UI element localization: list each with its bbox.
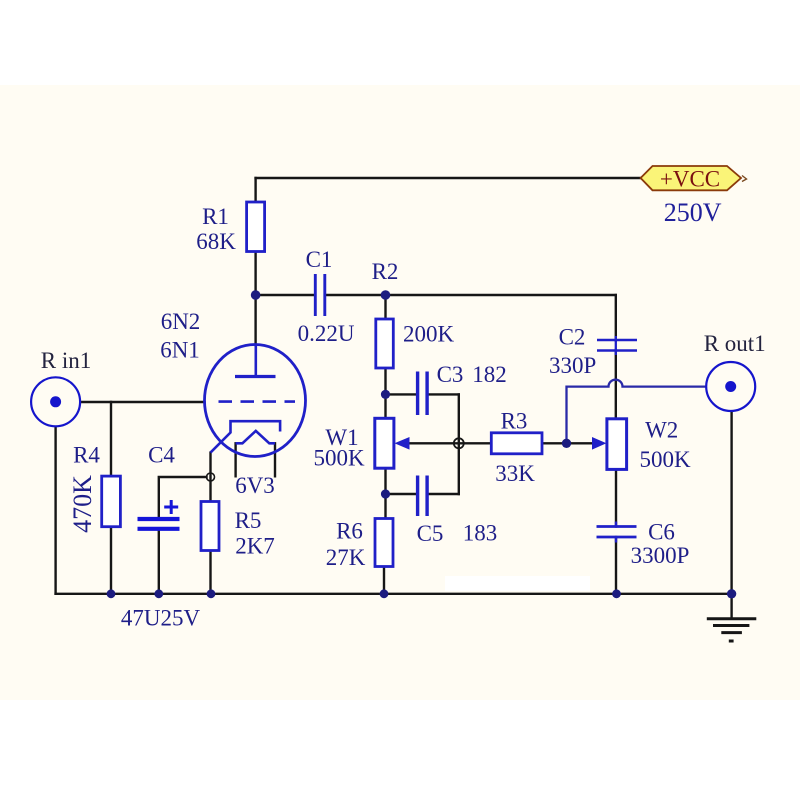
capacitor C6 <box>597 527 637 538</box>
svg-text:+VCC: +VCC <box>660 167 720 192</box>
wire R3 to junction E <box>542 442 594 444</box>
wire R2 bottom lead <box>384 368 386 394</box>
potentiometer W2 <box>607 419 627 470</box>
svg-text:183: 183 <box>463 521 498 546</box>
wire node C to C3 left plate <box>386 393 418 395</box>
resistor R4 <box>102 476 121 527</box>
wire C3 right plate to vertical <box>429 393 459 395</box>
bus dot R5 <box>207 589 216 598</box>
svg-text:C3: C3 <box>437 362 464 387</box>
wire W1 wiper to R3 with hop <box>409 442 491 444</box>
svg-text:W2: W2 <box>645 418 678 443</box>
resistor R2 <box>376 319 394 368</box>
svg-text:6V3: 6V3 <box>235 473 275 498</box>
wire R4 top lead <box>110 402 112 476</box>
svg-text:250V: 250V <box>664 198 722 227</box>
capacitor C5 <box>418 476 428 517</box>
crossover ring on wiper line <box>454 438 464 448</box>
svg-text:3300P: 3300P <box>631 543 690 568</box>
svg-text:47U25V: 47U25V <box>121 606 201 631</box>
node E dot <box>562 439 571 448</box>
svg-text:470K: 470K <box>68 475 97 533</box>
node D dot <box>381 489 390 498</box>
svg-text:330P: 330P <box>549 353 596 378</box>
junction hook at cathode/C4 node <box>207 473 215 481</box>
wire heater pin left <box>234 443 236 476</box>
wire node A down to tube plate <box>254 295 256 345</box>
tube V1 envelope <box>205 345 306 457</box>
bus dot R4 <box>107 589 116 598</box>
bus dot C4 <box>154 589 163 598</box>
bus dot C6 <box>612 589 621 598</box>
power flag pin tick <box>742 176 747 182</box>
wire cathode to R5 <box>209 453 211 502</box>
svg-text:R in1: R in1 <box>41 348 91 373</box>
wire ground stub <box>730 594 732 618</box>
wire W1 bottom lead <box>384 468 386 494</box>
svg-text:6N1: 6N1 <box>160 338 200 363</box>
wire W1 top lead <box>384 394 386 418</box>
wire C6 bottom lead <box>615 537 617 594</box>
resistor R6 <box>375 519 393 567</box>
wire ground bus <box>56 593 732 595</box>
bus dot R6 <box>380 589 389 598</box>
capacitor C1 <box>315 274 325 316</box>
wire R4 bottom lead <box>110 527 112 594</box>
svg-text:R5: R5 <box>235 508 262 533</box>
svg-text:C2: C2 <box>559 325 586 350</box>
capacitor C3 <box>418 372 428 416</box>
tube grid dashes <box>219 400 296 403</box>
connector R out1 <box>706 362 755 411</box>
tube filament <box>236 431 275 443</box>
wire C2 bottom to W2 top <box>615 350 617 419</box>
wire R6 bottom lead <box>383 567 385 594</box>
wire node A to C1 <box>256 294 315 296</box>
wire top power rail <box>256 177 641 179</box>
ground symbol <box>707 619 757 641</box>
connector R in1 <box>31 377 80 426</box>
svg-text:R6: R6 <box>336 519 363 544</box>
wire C1 to node B <box>326 294 386 296</box>
resistor R1 <box>247 202 265 252</box>
svg-text:68K: 68K <box>196 229 236 254</box>
svg-text:R1: R1 <box>202 204 229 229</box>
power flag +VCC hexagon <box>641 166 741 190</box>
potentiometer W1 wiper arrow <box>395 437 410 450</box>
capacitor C4 plus sign <box>164 500 178 514</box>
svg-text:200K: 200K <box>403 322 455 347</box>
svg-text:R3: R3 <box>501 409 528 434</box>
wire R in1 down to ground bus <box>54 426 56 594</box>
svg-text:R2: R2 <box>372 259 399 284</box>
svg-text:C4: C4 <box>148 443 175 468</box>
node B dot <box>381 290 391 300</box>
svg-text:2K7: 2K7 <box>235 534 275 559</box>
wire node B to right rail <box>386 294 616 296</box>
svg-text:500K: 500K <box>313 446 365 471</box>
wire output feed with hop (blue) <box>567 380 707 444</box>
wire C5 right plate to vertical <box>429 493 459 495</box>
wire node D to C5 left plate <box>386 493 418 495</box>
node A dot <box>251 290 261 300</box>
tube cathode <box>211 421 281 452</box>
tube plate lead <box>255 344 258 377</box>
resistor R5 <box>201 502 219 551</box>
svg-text:R4: R4 <box>73 443 100 468</box>
wire grid input from R in1 <box>80 401 205 403</box>
resistor R3 <box>491 433 542 454</box>
potentiometer W1 <box>375 418 394 468</box>
svg-text:C6: C6 <box>648 520 675 545</box>
svg-text:C5: C5 <box>417 521 444 546</box>
wire C4 bottom lead <box>158 531 160 594</box>
svg-text:27K: 27K <box>326 545 366 570</box>
wire R2 top lead <box>384 295 386 319</box>
potentiometer W2 wiper arrow <box>592 437 606 450</box>
tube plate bar <box>235 375 276 378</box>
wire R1 top lead <box>254 178 256 202</box>
bus dot ground <box>727 589 736 598</box>
svg-text:182: 182 <box>472 362 507 387</box>
svg-text:0.22U: 0.22U <box>298 321 355 346</box>
wire C3-C5 right vertical <box>458 394 460 494</box>
svg-text:C1: C1 <box>306 247 333 272</box>
svg-text:6N2: 6N2 <box>161 309 201 334</box>
wire R out1 down to ground bus <box>730 411 732 594</box>
wire R6 top lead <box>384 494 386 519</box>
svg-text:R out1: R out1 <box>704 331 766 356</box>
wire W2 bottom to C6 <box>615 469 617 526</box>
wire right rail down to C2 <box>615 295 617 341</box>
svg-text:500K: 500K <box>639 447 691 472</box>
wire C4 top lead <box>159 477 207 517</box>
wire R5 bottom lead <box>209 551 211 594</box>
capacitor C4 electrolytic <box>138 519 180 529</box>
capacitor C2 <box>597 340 637 351</box>
wire R1 bottom lead to node A <box>254 252 256 296</box>
node C dot <box>381 390 390 399</box>
wire heater pin right <box>274 443 276 476</box>
svg-text:33K: 33K <box>495 461 535 486</box>
